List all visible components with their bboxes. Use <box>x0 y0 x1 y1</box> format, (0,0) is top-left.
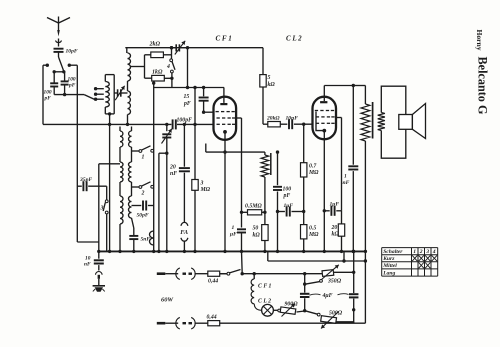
node antenna coil bottom junction <box>108 112 111 115</box>
svg-text:nF: nF <box>343 180 350 186</box>
svg-text:1μF: 1μF <box>284 203 294 209</box>
fuse 0.44 bottom <box>208 321 220 326</box>
capacitor 15pF <box>203 88 205 97</box>
tube CL2 cathode <box>322 129 326 133</box>
resistor 500Ohm variable <box>305 311 318 315</box>
wire jog to switch rail <box>159 152 167 154</box>
tube CF1 grid dashes row3 <box>217 123 220 125</box>
speaker <box>399 115 413 130</box>
svg-text:FA: FA <box>180 229 188 236</box>
variable capacitor tuning gang 2 <box>166 124 168 131</box>
svg-text:100pF: 100pF <box>177 118 193 124</box>
wire left feed <box>99 163 120 165</box>
svg-text:pF: pF <box>183 101 191 107</box>
resistor 350Ohm variable <box>322 270 334 277</box>
switch 3 <box>106 186 108 200</box>
svg-text:0,44: 0,44 <box>208 279 218 285</box>
svg-text:Schalter: Schalter <box>383 249 403 255</box>
ground <box>93 285 105 287</box>
inductor L1 antenna coil <box>104 75 106 82</box>
wire grid bus horizontal <box>43 123 171 125</box>
wire cathode horizontal <box>206 151 265 153</box>
wire top node line <box>125 47 263 49</box>
svg-text:kΩ: kΩ <box>268 82 276 88</box>
switch 2 <box>132 186 140 188</box>
tube CF1 grid dashes row1 <box>216 111 219 113</box>
svg-text:20: 20 <box>331 225 338 231</box>
wire grid top into tube <box>204 111 214 113</box>
wire cathode down <box>224 152 226 251</box>
wire anode feed horizontal <box>154 87 224 89</box>
svg-text:20kΩ: 20kΩ <box>266 116 280 122</box>
svg-text:900Ω: 900Ω <box>285 302 299 308</box>
svg-text:nF: nF <box>170 171 177 177</box>
wire caps bottom <box>54 94 84 96</box>
capacitor 1nF tone <box>352 86 354 165</box>
capacitor 4uF left <box>300 293 310 295</box>
svg-text:3: 3 <box>200 181 204 187</box>
switch mains <box>227 272 230 275</box>
svg-text:pF: pF <box>283 193 291 199</box>
svg-text:C L 2: C L 2 <box>258 299 271 305</box>
wire antenna coil former <box>105 74 114 76</box>
wire mains switch to 350 <box>242 273 322 275</box>
resistor 50kOhm <box>262 225 268 241</box>
resistor 1kOhm <box>145 77 152 79</box>
resistor 5kOhm <box>262 48 264 75</box>
capacitor C 100pF right <box>64 72 66 82</box>
connector ground plug break <box>96 272 103 275</box>
inductor L4 left column coils <box>119 127 121 132</box>
capacitor 5nF <box>132 218 134 228</box>
capacitor 100pF cathode <box>277 152 279 185</box>
transformer T1 core <box>372 102 374 139</box>
variable capacitor antenna trimmer <box>114 92 117 94</box>
resistor 0.5MOhm vertical <box>301 225 307 239</box>
svg-text:1: 1 <box>142 155 145 161</box>
svg-text:Kurz: Kurz <box>382 256 395 262</box>
resistor volume potentiometer <box>261 155 269 177</box>
transformer T1 primary <box>361 104 370 141</box>
switch 4 <box>170 59 173 62</box>
capacitor 35pF <box>77 185 82 187</box>
svg-text:μF: μF <box>229 232 237 238</box>
wire 1k right junction <box>171 73 173 88</box>
svg-text:350Ω: 350Ω <box>327 279 342 285</box>
wire 4uF rail left <box>304 274 306 293</box>
heater chain CF1 CL2 <box>253 274 255 279</box>
tube CL2 grid dashes row3 <box>316 122 319 124</box>
resistor 900Ohm variable <box>273 309 278 311</box>
svg-text:Belcanto G: Belcanto G <box>476 57 490 115</box>
svg-text:10nF: 10nF <box>286 116 299 122</box>
capacitor 1uF left <box>237 228 246 230</box>
svg-text:500Ω: 500Ω <box>329 311 343 317</box>
svg-text:pF: pF <box>68 83 76 89</box>
wire 350 right <box>334 271 354 273</box>
tube CL2 screen lead <box>336 117 342 119</box>
tube CF1 grid dashes row2 <box>217 117 220 119</box>
tube CL2 grid dashes row1 <box>315 110 318 112</box>
svg-text:2kΩ: 2kΩ <box>149 42 161 48</box>
capacitor 50pF <box>132 205 142 207</box>
svg-text:20: 20 <box>169 165 176 171</box>
svg-text:5: 5 <box>268 75 271 81</box>
wire caps top link <box>54 71 64 73</box>
svg-text:3: 3 <box>100 206 104 212</box>
svg-text:100: 100 <box>283 187 292 193</box>
wire transformer bottom <box>364 141 366 323</box>
wire antenna coil down <box>109 114 111 252</box>
switch antenna selector arm <box>59 57 64 71</box>
wire right drop <box>364 250 367 253</box>
capacitor 1uF coupling <box>276 210 279 213</box>
svg-text:1: 1 <box>413 249 416 255</box>
lamp dial <box>254 304 261 311</box>
svg-text:2: 2 <box>141 191 145 197</box>
wire 2k right to top <box>163 54 171 56</box>
wire CF1 screen rail <box>241 118 243 228</box>
connector FA phono <box>183 217 185 223</box>
svg-text:0.5: 0.5 <box>309 226 316 232</box>
table switch positions <box>382 248 438 277</box>
tube CL2 beam plate link <box>316 112 323 131</box>
transformer T1 secondary <box>378 113 385 131</box>
svg-text:50pF: 50pF <box>137 213 149 219</box>
svg-text:C L 2: C L 2 <box>286 35 302 43</box>
wire to transformer <box>364 86 366 105</box>
switch 1 <box>132 150 140 152</box>
svg-text:35pF: 35pF <box>79 177 92 183</box>
wire 1uF-bus-switch vertical <box>241 251 244 273</box>
svg-text:4μF: 4μF <box>322 293 333 299</box>
inductor L5 right column coils <box>131 127 133 132</box>
wire right rail <box>76 65 78 242</box>
wire speaker loop <box>381 86 406 158</box>
resistor 2kOhm <box>145 54 151 56</box>
tube CL2 anode <box>320 101 327 103</box>
svg-text:kΩ: kΩ <box>253 233 261 239</box>
svg-text:3: 3 <box>425 249 429 255</box>
svg-text:kΩ: kΩ <box>332 232 340 238</box>
svg-text:nF: nF <box>84 262 91 268</box>
inductor L3 oscillator coil lower <box>127 81 129 91</box>
capacitor 10pF antenna series <box>54 48 64 50</box>
svg-text:MΩ: MΩ <box>308 232 319 238</box>
svg-text:Mittel: Mittel <box>382 263 397 269</box>
wire coil bottom to grid bus <box>127 115 129 125</box>
wire resistor left bracket <box>144 55 146 78</box>
resistor 0.5MOhm horizontal <box>242 211 247 213</box>
capacitor 100pF grid series <box>172 119 174 129</box>
resistor 3MOhm <box>194 88 196 180</box>
wire left rail <box>42 65 44 124</box>
node CL2 grid <box>302 123 305 126</box>
capacitor 20nF <box>183 124 185 166</box>
svg-text:C F 1: C F 1 <box>216 35 232 43</box>
svg-text:2: 2 <box>419 249 423 255</box>
wire main bus <box>99 250 366 252</box>
wire mains top <box>157 272 166 275</box>
wire antenna box top <box>43 64 47 66</box>
inductor L2 oscillator coil upper <box>128 53 131 81</box>
capacitor C 100pF left <box>53 72 55 83</box>
svg-text:60W: 60W <box>161 297 174 304</box>
capacitor 10nF ground <box>98 251 100 258</box>
svg-text:0,44: 0,44 <box>207 315 217 321</box>
node HT junction <box>343 251 345 261</box>
svg-text:1kΩ: 1kΩ <box>152 70 163 76</box>
svg-text:Lang: Lang <box>382 270 395 276</box>
svg-text:MΩ: MΩ <box>200 187 211 193</box>
wire mains bottom <box>157 322 166 325</box>
svg-text:C F 1: C F 1 <box>258 284 272 290</box>
svg-text:15: 15 <box>184 94 190 100</box>
svg-text:50: 50 <box>253 226 259 232</box>
inductor L6 small coil <box>150 231 154 245</box>
tube CF1 anode <box>220 103 227 105</box>
svg-text:0.7: 0.7 <box>309 164 317 170</box>
svg-text:4: 4 <box>166 64 170 70</box>
switch antenna tap selector <box>84 95 94 100</box>
resistor 0.7MOhm <box>303 124 305 163</box>
tube CF1 cathode <box>223 130 227 134</box>
wire padder down <box>187 48 189 88</box>
wire pot down <box>264 177 266 225</box>
resistor 20kOhm <box>263 123 268 125</box>
op-amp tube CF1 envelope <box>214 97 237 140</box>
capacitor 4uF right <box>353 272 355 293</box>
svg-text:pF: pF <box>44 96 52 102</box>
svg-text:Horny: Horny <box>475 29 484 50</box>
svg-text:4: 4 <box>432 249 436 255</box>
antenna <box>47 18 59 24</box>
svg-text:1: 1 <box>232 225 235 231</box>
wire CL2 anode top <box>324 85 353 87</box>
wire switch rail down <box>158 153 160 251</box>
svg-text:10pF: 10pF <box>66 49 78 55</box>
node antenna switch contacts <box>46 63 49 66</box>
wire HT horizontal <box>268 260 366 262</box>
variable capacitor oscillator padder <box>170 46 173 49</box>
wire osc rail <box>153 83 155 251</box>
wire bus tap to HT line <box>267 251 269 261</box>
resistor 20kOhm cathode <box>341 211 343 224</box>
svg-text:1: 1 <box>344 174 347 180</box>
capacitor 1uF cathode CL2 <box>323 209 326 212</box>
tube CF1 screen lead right <box>236 117 241 119</box>
node coil taps <box>94 87 97 90</box>
svg-text:MΩ: MΩ <box>308 170 319 176</box>
wire antenna down-lead with arrow break <box>57 30 60 37</box>
svg-text:0.5MΩ: 0.5MΩ <box>245 204 262 210</box>
fuse 0.44 top <box>208 271 220 276</box>
svg-text:1μF: 1μF <box>330 202 340 208</box>
tube CL2 grid dashes row2 <box>316 116 319 118</box>
op-amp tube CL2 envelope <box>313 97 337 140</box>
capacitor 10nF coupling <box>280 123 287 125</box>
